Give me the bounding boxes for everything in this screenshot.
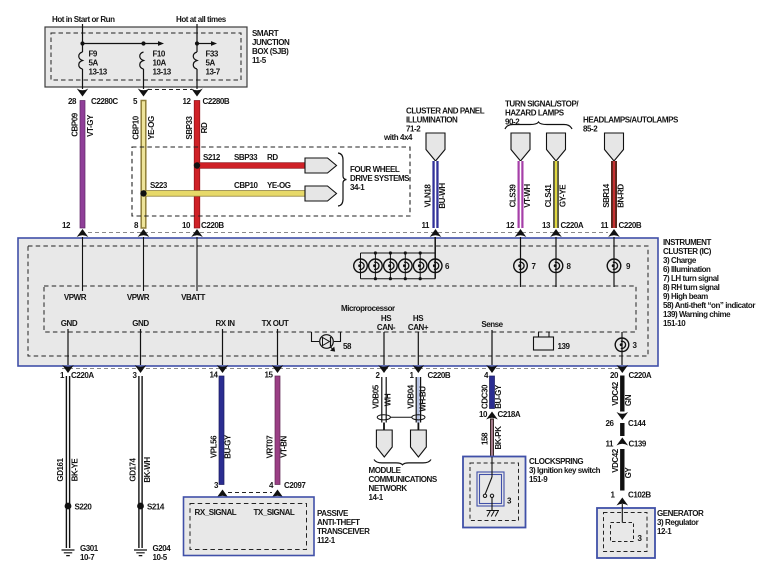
lamp 6b	[369, 259, 383, 273]
svg-text:12: 12	[183, 97, 192, 106]
wire CLS41 GY-YE	[544, 161, 568, 228]
generator box	[597, 508, 655, 558]
lamp 6f illumination	[428, 259, 450, 273]
svg-text:3) Charge: 3) Charge	[663, 256, 697, 265]
svg-text:C139: C139	[629, 440, 647, 449]
junction S212	[194, 162, 200, 168]
lamp 3 charge	[615, 332, 637, 365]
svg-text:5A: 5A	[206, 59, 216, 68]
svg-text:90-2: 90-2	[505, 118, 520, 127]
wire VBATT	[181, 237, 205, 302]
svg-text:10-5: 10-5	[153, 553, 168, 562]
svg-text:RD: RD	[267, 153, 278, 162]
svg-text:CBP10: CBP10	[234, 181, 259, 190]
svg-text:S212: S212	[203, 153, 221, 162]
pin 26 C144	[606, 412, 647, 428]
svg-text:C220A: C220A	[629, 371, 652, 380]
svg-text:151-9: 151-9	[529, 475, 548, 484]
svg-text:CLOCKSPRING: CLOCKSPRING	[529, 457, 583, 466]
svg-text:C2280C: C2280C	[91, 97, 118, 106]
pin 13 C220A IC	[542, 221, 584, 237]
label SJB name	[252, 29, 290, 65]
svg-text:20: 20	[610, 371, 619, 380]
svg-text:158: 158	[480, 432, 489, 445]
lamp 6c	[384, 259, 398, 273]
pin 1 C102B	[611, 491, 652, 506]
chime 139 warning	[534, 332, 571, 351]
svg-text:3) Ignition key switch: 3) Ignition key switch	[529, 466, 601, 475]
pin 1 C220A	[60, 365, 94, 380]
svg-text:C2280B: C2280B	[203, 97, 230, 106]
svg-text:BN-RD: BN-RD	[617, 184, 626, 208]
svg-text:YE-OG: YE-OG	[147, 116, 156, 140]
wire bus F9-F10	[80, 41, 164, 46]
node Hot at all times	[176, 15, 227, 24]
svg-text:TURN SIGNAL/STOP/: TURN SIGNAL/STOP/	[505, 100, 579, 109]
svg-text:10A: 10A	[153, 59, 167, 68]
ground G301	[62, 544, 99, 562]
svg-text:11: 11	[421, 221, 430, 230]
instrument cluster box	[18, 238, 658, 366]
junction S220	[65, 503, 93, 512]
svg-text:151-10: 151-10	[663, 319, 686, 328]
svg-text:F33: F33	[206, 50, 219, 59]
connector arrow to 4WD lower	[305, 186, 337, 201]
svg-text:BK-YE: BK-YE	[71, 458, 80, 482]
svg-text:13-13: 13-13	[153, 68, 172, 77]
svg-text:HEADLAMPS/AUTOLAMPS: HEADLAMPS/AUTOLAMPS	[583, 116, 679, 125]
wire feed F33	[196, 24, 198, 52]
wire VPWR 1	[64, 237, 87, 302]
brace module communications network	[374, 460, 431, 465]
connector line C2097	[228, 492, 272, 494]
LED 58 anti-theft indicator	[312, 332, 352, 351]
wire S223 to four wheel drive YE-OG	[144, 181, 306, 196]
connector to headlamps	[605, 133, 624, 161]
wire into regulator	[621, 504, 623, 523]
svg-text:C220B: C220B	[201, 221, 224, 230]
svg-text:C220A: C220A	[561, 221, 584, 230]
label CLUSTER AND PANEL ILLUMINATION	[406, 107, 485, 134]
svg-text:GY: GY	[624, 467, 633, 479]
svg-text:CBP09: CBP09	[71, 112, 80, 137]
svg-text:Sense: Sense	[481, 320, 503, 329]
wire 158 BK-PK	[480, 419, 503, 457]
svg-text:C218A: C218A	[498, 410, 521, 419]
svg-text:10: 10	[182, 221, 191, 230]
svg-text:3) Regulator: 3) Regulator	[657, 518, 699, 527]
svg-text:VDC42: VDC42	[611, 448, 620, 473]
wire S212 to four wheel drive RD	[197, 153, 305, 168]
wire VPL56 BU-GY	[210, 376, 233, 485]
svg-text:VT-BN: VT-BN	[280, 435, 289, 457]
svg-text:11: 11	[600, 221, 609, 230]
svg-text:DRIVE SYSTEMS: DRIVE SYSTEMS	[350, 174, 410, 183]
wire CLS39 VT-WH	[509, 161, 533, 228]
lamp 6a	[354, 259, 368, 273]
pin 3	[133, 365, 147, 380]
label passive anti-theft transceiver	[317, 509, 370, 545]
svg-text:BK-WH: BK-WH	[143, 457, 152, 483]
svg-text:PASSIVE: PASSIVE	[317, 509, 349, 518]
lamp bank rails	[361, 251, 436, 280]
pin 5	[133, 89, 149, 107]
svg-text:WH-BU: WH-BU	[419, 386, 428, 412]
wire VRT07 VT-BN	[266, 376, 289, 485]
svg-text:SMART: SMART	[252, 29, 279, 38]
svg-text:S220: S220	[75, 503, 93, 512]
svg-text:S223: S223	[150, 181, 168, 190]
wire feed F9	[82, 24, 84, 52]
wire VPWR 2	[127, 237, 150, 302]
svg-text:SBR14: SBR14	[602, 183, 611, 208]
connector to turn signal lamps right	[547, 133, 566, 161]
wire GND 2	[132, 319, 149, 365]
svg-text:WH: WH	[384, 393, 393, 406]
svg-text:BU-GY: BU-GY	[224, 434, 233, 459]
connector arrow MCN right	[411, 430, 427, 457]
svg-text:FOUR WHEEL: FOUR WHEEL	[350, 165, 400, 174]
wire illumination feed	[434, 237, 436, 279]
lamp 6e	[413, 259, 427, 273]
passive anti-theft transceiver box	[184, 497, 315, 556]
svg-text:12: 12	[506, 221, 515, 230]
svg-text:BU-GY: BU-GY	[494, 384, 503, 409]
svg-text:VDB05: VDB05	[372, 384, 381, 409]
label clockspring	[529, 457, 601, 484]
svg-text:VPL56: VPL56	[210, 435, 219, 458]
ground G204	[134, 544, 171, 562]
svg-text:VPWR: VPWR	[127, 293, 150, 302]
svg-text:10-7: 10-7	[80, 553, 95, 562]
svg-text:F9: F9	[89, 50, 98, 59]
pin 11 C139	[605, 438, 646, 449]
lamp 7 LH turn	[514, 237, 537, 287]
wire CDC30 BU-GY	[480, 376, 503, 409]
svg-text:85-2: 85-2	[583, 125, 598, 134]
label FOUR WHEEL DRIVE SYSTEMS	[350, 165, 410, 192]
pin 3 PATS	[214, 481, 228, 498]
pin 14	[210, 365, 229, 380]
pin 4 C2097 PATS	[269, 481, 306, 498]
pin 12 IC turn	[506, 221, 526, 237]
svg-text:VBATT: VBATT	[181, 293, 205, 302]
wire bus F33	[195, 41, 217, 46]
microprocessor box	[44, 286, 636, 332]
svg-text:12: 12	[62, 221, 71, 230]
clockspring box	[463, 457, 526, 528]
svg-text:GND: GND	[61, 319, 78, 328]
svg-text:139: 139	[558, 342, 571, 351]
svg-text:C2097: C2097	[284, 481, 306, 490]
wire GD174 BK-WH	[129, 376, 153, 548]
wire VDC42 GY	[611, 448, 633, 490]
svg-text:VT-WH: VT-WH	[523, 184, 532, 208]
brace four wheel drive	[338, 153, 346, 206]
svg-text:C102B: C102B	[628, 491, 651, 500]
svg-text:HAZARD LAMPS: HAZARD LAMPS	[505, 109, 565, 118]
svg-text:9) High beam: 9) High beam	[663, 292, 708, 301]
svg-text:VRT07: VRT07	[266, 435, 275, 459]
svg-text:GD174: GD174	[129, 457, 138, 481]
svg-text:C220B: C220B	[619, 221, 642, 230]
svg-text:7) LH turn signal: 7) LH turn signal	[663, 274, 719, 283]
wire VDC42 GN	[611, 376, 633, 412]
svg-text:CDC30: CDC30	[480, 384, 489, 409]
svg-text:112-1: 112-1	[317, 536, 336, 545]
wire GND 1	[61, 319, 78, 365]
svg-text:VDB04: VDB04	[406, 384, 415, 409]
svg-text:10: 10	[479, 410, 488, 419]
pin 11 C220B IC headlamps	[600, 221, 641, 237]
svg-text:11-5: 11-5	[252, 56, 267, 65]
svg-text:CLS39: CLS39	[509, 184, 518, 208]
label module communications network	[369, 466, 438, 502]
svg-text:ILLUMINATION: ILLUMINATION	[406, 116, 458, 125]
svg-text:HS: HS	[381, 314, 392, 323]
node Hot in Start or Run	[52, 15, 115, 24]
svg-text:15: 15	[265, 371, 274, 380]
wire TX OUT	[262, 319, 289, 365]
lamp 6d	[399, 259, 413, 273]
pin 10 C218A	[479, 410, 521, 420]
connector line C2280	[148, 89, 192, 91]
lamp 9 high beam	[607, 237, 631, 287]
svg-text:CAN+: CAN+	[408, 323, 429, 332]
pin 12 IC	[62, 221, 88, 237]
ignition key switch housing	[477, 472, 504, 506]
svg-text:RD: RD	[200, 122, 209, 133]
lamp 8 RH turn	[549, 237, 571, 287]
pin 15	[265, 365, 284, 380]
wire SBR14 BN-RD	[602, 161, 626, 228]
wire HS CAN-	[377, 314, 396, 365]
svg-text:13-7: 13-7	[206, 68, 221, 77]
junction S214	[137, 503, 165, 512]
connector line C220 top	[88, 232, 608, 234]
svg-text:JUNCTION: JUNCTION	[252, 38, 290, 47]
svg-text:RX_SIGNAL: RX_SIGNAL	[195, 508, 237, 517]
svg-text:VDC42: VDC42	[611, 381, 620, 406]
svg-text:SBP33: SBP33	[185, 115, 194, 139]
pin 12 C2280B	[183, 89, 230, 107]
svg-text:5A: 5A	[89, 59, 99, 68]
svg-text:C220A: C220A	[71, 371, 94, 380]
svg-text:CLS41: CLS41	[544, 184, 553, 208]
ignition key switch	[483, 457, 512, 511]
svg-text:TRANSCEIVER: TRANSCEIVER	[317, 527, 370, 536]
wire VLN18 BU-WH	[424, 161, 448, 228]
svg-text:12-1: 12-1	[657, 527, 672, 536]
fuse F10 10A	[140, 50, 172, 90]
svg-text:TX OUT: TX OUT	[262, 319, 289, 328]
twisted pair symbol	[377, 415, 425, 430]
pin 28 C2280C	[68, 89, 118, 107]
pin 2	[376, 365, 390, 380]
fuse F9 5A	[79, 50, 108, 90]
label TURN SIGNAL STOP HAZARD LAMPS	[505, 100, 579, 127]
svg-text:GD161: GD161	[56, 457, 65, 481]
svg-text:NETWORK: NETWORK	[369, 484, 408, 493]
wire RX IN	[215, 319, 235, 365]
svg-text:SBP33: SBP33	[234, 153, 258, 162]
wire Sense	[481, 320, 503, 365]
wire C144 to C139	[620, 423, 624, 436]
label generator	[657, 509, 704, 536]
svg-text:13-13: 13-13	[89, 68, 108, 77]
wire HS CAN+	[408, 314, 429, 365]
svg-text:GND: GND	[132, 319, 149, 328]
svg-text:ANTI-THEFT: ANTI-THEFT	[317, 518, 360, 527]
svg-text:58: 58	[343, 342, 352, 351]
svg-text:14-1: 14-1	[369, 493, 384, 502]
svg-text:11: 11	[605, 440, 614, 449]
pin 10 C220B IC	[182, 221, 224, 237]
svg-text:HS: HS	[413, 314, 424, 323]
svg-text:CLUSTER AND PANEL: CLUSTER AND PANEL	[406, 107, 485, 116]
svg-text:CLUSTER (IC): CLUSTER (IC)	[663, 247, 712, 256]
chassis ground clockspring	[487, 511, 500, 517]
brace hazard lamps	[505, 122, 572, 129]
svg-text:Hot at all times: Hot at all times	[176, 15, 227, 24]
pin 20 C220A	[610, 365, 652, 380]
svg-text:34-1: 34-1	[350, 183, 365, 192]
svg-text:VPWR: VPWR	[64, 293, 87, 302]
svg-text:Microprocessor: Microprocessor	[341, 304, 395, 313]
connector arrow MCN left	[376, 430, 392, 457]
svg-text:VLN18: VLN18	[424, 184, 433, 208]
svg-text:GN: GN	[624, 394, 633, 406]
svg-text:CBP10: CBP10	[132, 115, 141, 140]
svg-text:26: 26	[606, 419, 615, 428]
junction S223	[140, 190, 146, 196]
wire VDB04 WH-BU	[406, 377, 427, 423]
svg-text:S214: S214	[147, 503, 165, 512]
label HEADLAMPS AUTOLAMPS	[583, 116, 679, 134]
connector to cluster illumination	[426, 133, 445, 161]
wire SBP33 RD	[185, 101, 209, 229]
svg-text:VT-GY: VT-GY	[86, 114, 95, 137]
svg-text:8) RH turn signal: 8) RH turn signal	[663, 283, 720, 292]
svg-text:C220B: C220B	[428, 371, 451, 380]
svg-text:139) Warning chime: 139) Warning chime	[663, 310, 731, 319]
svg-text:14: 14	[210, 371, 219, 380]
svg-text:6) Illumination: 6) Illumination	[663, 265, 711, 274]
svg-text:13: 13	[542, 221, 551, 230]
connector arrow to 4WD upper	[305, 158, 337, 173]
svg-text:GENERATOR: GENERATOR	[657, 509, 704, 518]
with 4x4 dashed box	[132, 133, 413, 216]
connector line C220 bottom	[62, 368, 620, 370]
svg-text:71-2: 71-2	[406, 125, 421, 134]
svg-text:58) Anti-theft “on” indicator: 58) Anti-theft “on” indicator	[663, 301, 755, 310]
wire CBP09 VT-GY	[71, 101, 96, 229]
svg-text:MODULE: MODULE	[369, 466, 402, 475]
svg-text:GY-YE: GY-YE	[559, 184, 568, 207]
svg-text:C144: C144	[628, 419, 646, 428]
smart junction box SJB	[45, 27, 247, 87]
svg-text:TX_SIGNAL: TX_SIGNAL	[254, 508, 295, 517]
svg-text:BU-WH: BU-WH	[438, 183, 447, 209]
svg-text:Hot in Start or Run: Hot in Start or Run	[52, 15, 115, 24]
label instrument cluster legend	[663, 238, 755, 328]
connector to turn signal lamps left	[511, 133, 530, 161]
svg-text:28: 28	[68, 97, 77, 106]
wire CBP10 YE-OG	[132, 101, 157, 229]
svg-text:with 4x4: with 4x4	[383, 133, 413, 142]
svg-text:F10: F10	[153, 50, 166, 59]
pin 1 C220B	[410, 365, 451, 380]
fuse F33 5A	[193, 50, 220, 90]
wire GD161 BK-YE	[56, 376, 80, 548]
svg-text:CAN-: CAN-	[377, 323, 396, 332]
pin 4	[484, 365, 498, 380]
svg-text:BK-PK: BK-PK	[494, 426, 503, 450]
svg-text:COMMUNICATIONS: COMMUNICATIONS	[369, 475, 438, 484]
svg-text:RX IN: RX IN	[215, 319, 235, 328]
pin 8 IC	[134, 221, 149, 237]
svg-text:BOX (SJB): BOX (SJB)	[252, 47, 289, 56]
svg-text:YE-OG: YE-OG	[267, 181, 291, 190]
svg-text:G301: G301	[80, 544, 99, 553]
pin 11 IC illumination	[421, 221, 441, 237]
svg-text:G204: G204	[153, 544, 172, 553]
svg-text:INSTRUMENT: INSTRUMENT	[663, 238, 712, 247]
wire VDB05 WH	[372, 377, 393, 423]
